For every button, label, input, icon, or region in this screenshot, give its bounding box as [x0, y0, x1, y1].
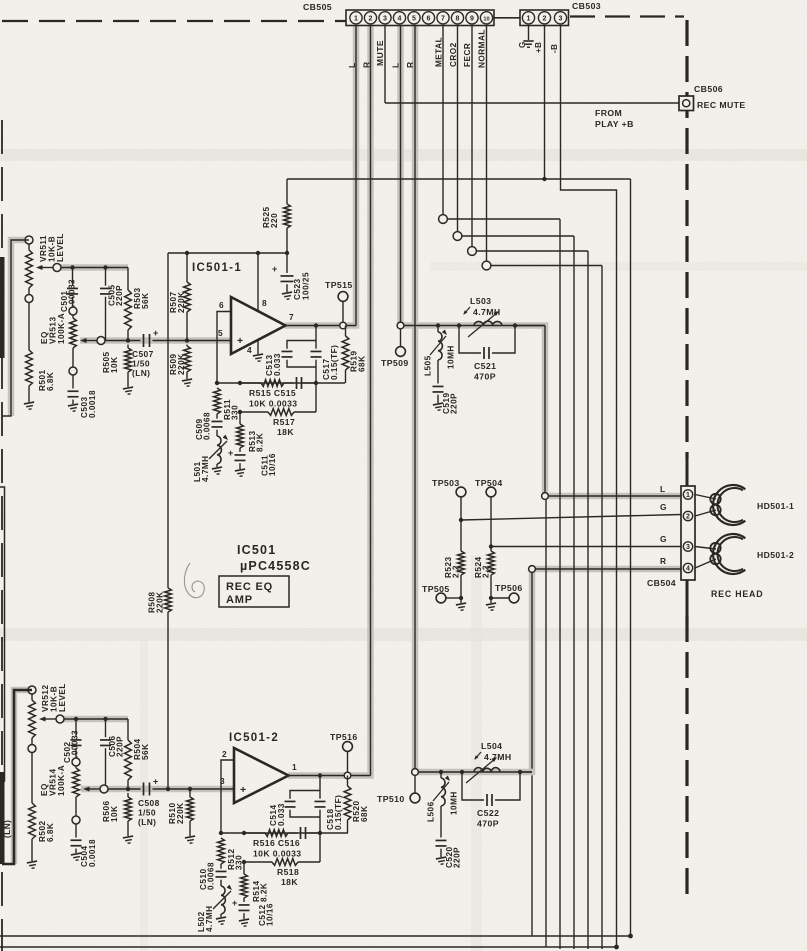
label C506 220P: [108, 735, 125, 757]
testpoint TP504: [486, 487, 496, 546]
label C514 0.033: [269, 803, 286, 826]
junction R503 bottom: [126, 338, 130, 342]
junction +B at bottom rail: [628, 934, 633, 939]
record head HD501-1: [695, 485, 745, 525]
wiper VR513: [80, 337, 105, 345]
wire CB505 pin3 MUTE: [384, 25, 386, 103]
connector CB504: [681, 486, 695, 580]
pin 1 label: [292, 762, 297, 772]
junction chainB 2: [242, 831, 246, 835]
label C521 470P: [474, 361, 496, 382]
adjacent board outline left: [0, 487, 5, 781]
wire CB503 -B: [561, 25, 617, 947]
label NORMAL pin10: [477, 29, 486, 68]
label R515 C515 10K 0.0033: [249, 388, 297, 409]
wire R head to CB504 pin4: [535, 568, 681, 570]
resistor R509: [182, 345, 193, 388]
resistor R511 chainA: [214, 388, 221, 414]
scan band artifact: [471, 555, 482, 951]
label C513 0.033: [265, 353, 282, 376]
label C508 1/50 (LN): [138, 798, 160, 827]
label C519 220P: [442, 392, 459, 414]
label CB504: [647, 578, 676, 588]
label C510 0.0068: [199, 862, 216, 890]
wire VR512 bracket: [2, 690, 32, 864]
junction C517 bottom: [314, 381, 318, 385]
label C507 1/50 (LN): [132, 349, 154, 378]
label L pin1: [347, 62, 357, 68]
bottom supply rail 2: [0, 946, 617, 948]
label -B: [550, 44, 559, 53]
resistor R506: [123, 793, 134, 844]
wire pin8 to bias rail: [257, 253, 259, 311]
label C512 10/16: [258, 903, 275, 926]
junction chainA 2: [219, 831, 223, 835]
wire CB505 pin1 L (IC501-1 output): [355, 25, 357, 326]
label L501 4.7MH: [193, 455, 210, 482]
label TP515: [325, 280, 353, 290]
capacitor C523 electrolytic: [272, 253, 294, 300]
resistor R523: [456, 520, 467, 611]
wire METAL bus vertical: [559, 219, 561, 949]
resistor R518: [244, 833, 320, 865]
capacitor C515: [297, 377, 317, 389]
label R524 2.2: [474, 556, 491, 578]
adjacent board bar lower-left: [0, 772, 5, 864]
node L head corner: [542, 493, 549, 500]
junction C506 top: [103, 717, 107, 721]
capacitor C507 electrolytic: [144, 328, 159, 347]
wire pin6 feedback: [217, 312, 231, 384]
resistor R517: [240, 383, 316, 415]
bottom supply rail 1: [0, 935, 631, 937]
wire NORMAL bus vertical: [601, 266, 603, 950]
wire line1 L: [61, 267, 128, 269]
label R508 220K: [147, 591, 164, 613]
resistor R508: [165, 588, 172, 612]
node pin5 terminal: [412, 769, 419, 776]
junction R508 bottom: [166, 787, 170, 791]
inductor L504 variable: [466, 757, 532, 783]
label L504 4.7MH: [474, 741, 511, 762]
wire CB505 pin8 CRO2: [457, 25, 459, 232]
label CB503: [572, 1, 601, 11]
testpoint TP516: [343, 742, 353, 779]
capacitor C521 bypass loop: [459, 326, 515, 360]
wire CB503 +B: [544, 25, 546, 179]
capacitor C509 chainA: [212, 414, 223, 436]
label CB506: [694, 84, 723, 94]
wire IC501-2 output: [289, 775, 371, 777]
junction C522 right: [518, 770, 522, 774]
resistor R525: [284, 179, 291, 253]
resistor R515: [240, 380, 294, 387]
capacitor C522 bypass loop: [462, 772, 520, 806]
label C503 0.0018: [80, 390, 97, 418]
resistor R501: [24, 303, 35, 411]
label TP509: [381, 358, 409, 368]
label TP516: [330, 732, 358, 742]
label 10MH: [449, 791, 458, 815]
label IC501-1: [192, 262, 242, 274]
capacitor C513 parallel loop: [282, 341, 317, 368]
board border top dashed: [2, 20, 346, 22]
wire CB505 pin7 METAL: [442, 25, 444, 215]
potentiometer VR513 EQ: [69, 307, 77, 375]
testpoint TP505: [422, 584, 463, 603]
label C505 220P: [107, 284, 124, 306]
inductor L505 variable: [430, 326, 447, 384]
label IC501: [237, 543, 276, 557]
testpoint TP506: [489, 583, 523, 603]
capacitor C504: [71, 824, 83, 861]
label R523 2.2: [444, 556, 461, 578]
junction C521 right: [513, 323, 517, 327]
callout box REC EQ AMP: [219, 576, 289, 607]
signal highlight CB505 pin5 to R head: [415, 25, 681, 772]
resistor R514 chainB: [241, 862, 248, 902]
label +B: [534, 42, 543, 53]
label REC MUTE: [697, 100, 746, 110]
scan band artifact: [430, 262, 807, 271]
label TP504: [475, 478, 503, 488]
pin 6 label: [219, 300, 224, 310]
board border right dashed lower: [685, 616, 688, 897]
label L pin4: [391, 62, 401, 68]
resistor R504: [125, 719, 132, 789]
capacitor C501: [67, 268, 78, 308]
capacitor C516: [301, 827, 321, 839]
label CB505: [303, 2, 332, 12]
label VR512 10K-B LEVEL: [41, 683, 67, 712]
junction TP503 G1: [459, 518, 463, 522]
label METAL pin7: [434, 37, 443, 67]
resistor R503: [125, 268, 132, 341]
label G: [518, 41, 527, 48]
signal highlight L output to CB505 pin1: [285, 25, 356, 326]
signal highlight R input: [14, 690, 234, 864]
wire R head line: [418, 771, 532, 773]
junction R507 R509: [185, 338, 189, 342]
label R513 8.2K: [248, 430, 265, 452]
wire CB505 pin10 NORMAL: [486, 25, 488, 261]
junction pin8 stub: [256, 251, 260, 255]
label VR511 10K-B LEVEL: [39, 233, 65, 262]
label R503 56K: [133, 287, 150, 309]
label R510 220K: [168, 802, 185, 824]
wire FECR bus vertical: [587, 251, 589, 949]
junction C505 top: [103, 265, 107, 269]
resistor R510: [185, 789, 196, 844]
resistor R502: [27, 753, 38, 870]
capacitor C503: [68, 375, 80, 412]
label C511 10/16: [260, 453, 277, 476]
wire L bus continuation: [545, 499, 547, 947]
capacitor C508 electrolytic: [144, 777, 159, 796]
board border solid at CB504: [686, 458, 689, 616]
scan band artifact: [140, 640, 148, 951]
node pin4 terminal: [397, 322, 404, 329]
node METAL open terminal: [439, 215, 560, 224]
label R514 8.2K: [252, 880, 269, 902]
junction chainA: [215, 381, 219, 385]
label C501 0.00033: [60, 279, 77, 312]
label R pin2: [362, 61, 372, 68]
wire R head up: [531, 572, 533, 768]
junction R525 C523: [285, 251, 289, 255]
wire CB505 pin2 R (IC501-2 output): [370, 25, 372, 776]
pin 5 label: [218, 328, 223, 338]
testpoint TP515: [338, 292, 348, 329]
potentiometer VR514 EQ: [72, 758, 80, 824]
node R head corner: [529, 566, 536, 573]
label TP503: [432, 478, 460, 488]
wire bias rail IC501-1: [168, 252, 287, 254]
pencil squiggle artifact: [184, 563, 204, 598]
label R506 10K: [102, 800, 119, 822]
node NORMAL open terminal: [482, 261, 602, 270]
capacitor C520: [436, 840, 448, 865]
node FECR open terminal: [468, 247, 588, 256]
label L502 4.7MH: [197, 905, 214, 932]
wire REC MUTE: [385, 102, 679, 104]
label C522 470P: [477, 808, 499, 829]
label R502 6.8K: [38, 820, 55, 842]
label R wire: [660, 556, 666, 566]
label EQ VR513 100K-A: [40, 313, 66, 344]
wire CB505 to CB503: [494, 17, 520, 19]
inductor L506 variable: [433, 772, 450, 838]
junction R507 top: [185, 251, 189, 255]
wire VR511 bracket: [2, 240, 29, 416]
resistor R520: [344, 776, 351, 834]
wire L head line: [404, 325, 545, 327]
wire CB505 pin5 R play: [414, 25, 416, 769]
junction C522 left: [460, 770, 464, 774]
capacitor C518 branch: [315, 776, 326, 834]
label C509 0.0068: [195, 412, 212, 440]
scan band artifact: [0, 149, 807, 161]
junction output feedback tap 2: [318, 773, 322, 777]
label C504 0.0018: [80, 839, 97, 867]
inductor L503 variable: [468, 311, 545, 337]
junction C502 top: [74, 717, 78, 721]
wire G2 to CB504 pin3: [491, 546, 681, 548]
wire feedback line: [217, 382, 345, 384]
junction output feedback tap: [314, 323, 318, 327]
label IC501-2: [229, 732, 279, 744]
signal highlight L input: [11, 240, 231, 416]
label R511 330: [223, 399, 240, 420]
pin 8 label: [262, 298, 267, 308]
wire +B rail horizontal: [287, 179, 631, 936]
scan band artifact: [0, 628, 807, 641]
label R518 18K: [277, 867, 299, 887]
capacitor C512 electrolytic chainB: [232, 898, 250, 927]
pin 7 label: [289, 312, 294, 322]
node CRO2 open terminal: [453, 232, 574, 241]
label R501 6.8K: [38, 369, 55, 391]
wire feedback line 2: [221, 832, 348, 834]
wire pin2 feedback: [221, 760, 234, 833]
capacitor C511 electrolytic chainB: [228, 448, 246, 477]
label R512 330: [227, 848, 244, 870]
label C523 100/25: [293, 272, 311, 300]
inductor L501 variable: [209, 435, 228, 475]
label EQ VR514 100K-A: [40, 765, 66, 796]
label R507 220K: [169, 291, 186, 313]
resistor R519: [342, 326, 349, 384]
label CRO2 pin8: [449, 42, 458, 67]
label L wire: [660, 484, 666, 494]
op-amp IC501-2: [234, 748, 289, 803]
resistor R512 chainA: [218, 838, 225, 864]
wire pin4 to ground: [253, 339, 264, 362]
label 10MH: [446, 345, 455, 369]
junction R518 left: [242, 860, 246, 864]
pin 4 label: [247, 345, 252, 355]
connector CB505: [346, 10, 494, 26]
wiper VR511: [36, 264, 61, 272]
junction C501 top: [70, 265, 74, 269]
potentiometer VR511: [25, 236, 33, 303]
resistor R505: [123, 345, 134, 396]
junction +B rail: [542, 177, 546, 181]
label G wire: [660, 502, 667, 512]
resistor R507: [184, 253, 191, 341]
potentiometer VR512: [28, 686, 36, 753]
record head HD501-2: [695, 534, 745, 574]
label L503 4.7MH: [463, 296, 500, 317]
signal highlight R output to CB505 pin2: [288, 25, 371, 776]
capacitor C506: [100, 719, 111, 789]
label L505: [423, 355, 432, 376]
wire G1 to CB504 pin2: [461, 515, 681, 521]
label R509 220K: [169, 353, 186, 375]
label TP510: [377, 794, 405, 804]
junction L505 top: [436, 323, 440, 327]
label (LN) edge fragment: [3, 820, 12, 838]
label L506: [426, 801, 435, 822]
label R505 10K: [102, 351, 119, 373]
wire L head to CB504 pin1: [548, 495, 681, 497]
capacitor C505: [100, 268, 111, 341]
label R519 68K: [349, 350, 366, 372]
pin 2 label: [222, 749, 227, 759]
label C520 220P: [445, 846, 462, 868]
label C518 0.15(TF): [326, 795, 343, 830]
wiper VR512: [39, 715, 64, 723]
label G wire 2: [660, 534, 667, 544]
capacitor C517 branch: [311, 326, 322, 384]
junction -B at bottom rail: [614, 945, 619, 950]
label FROM PLAY +B: [595, 108, 634, 129]
label HD501-1: [757, 501, 794, 511]
label R520 68K: [352, 800, 369, 822]
label HD501-2: [757, 550, 794, 560]
op-amp IC501-1: [231, 297, 286, 354]
label R517 18K: [273, 417, 295, 437]
junction TP504 G2: [489, 544, 493, 548]
wire CRO2 bus vertical: [573, 236, 575, 949]
pin 3 label: [220, 776, 225, 786]
junction R517 left: [238, 410, 242, 414]
resistor R513 chainB: [237, 412, 244, 452]
resistor R516: [244, 830, 298, 837]
label R504 56K: [133, 738, 150, 760]
label R516 C516 10K 0.0033: [253, 838, 301, 859]
testpoint TP503: [456, 487, 466, 520]
label R525 220: [262, 206, 279, 228]
label C502 0.00033: [63, 730, 80, 763]
wire line1 R: [64, 718, 128, 720]
capacitor C519: [433, 386, 445, 411]
wire R508 vertical: [167, 253, 169, 789]
board border right dashed: [685, 20, 688, 458]
wire R bus continuation: [531, 775, 533, 936]
capacitor C510 chainA: [216, 864, 227, 886]
wire CB505 pin9 FECR: [471, 25, 473, 247]
wire line2 R to IC501-2: [108, 788, 234, 790]
capacitor C514 parallel loop: [285, 791, 321, 818]
label FECR pin9: [463, 43, 472, 67]
junction R504 bottom: [126, 787, 130, 791]
label uPC4558C: [240, 559, 311, 573]
capacitor C502: [71, 719, 82, 758]
label C517 0.15(TF): [322, 345, 339, 380]
junction R510 top: [188, 787, 192, 791]
wire L head down: [544, 326, 546, 493]
junction C521 left: [457, 323, 461, 327]
resistor R524: [486, 547, 497, 612]
board border left dashed: [1, 120, 3, 951]
junction C518 bottom: [318, 831, 322, 835]
board border top-right dashed: [570, 15, 684, 17]
wire CB505 pin4 L play: [400, 25, 402, 322]
connector CB503: [520, 10, 569, 26]
label R pin5: [405, 61, 415, 68]
connector CB506: [679, 96, 694, 111]
wire CB503 G + ground: [523, 25, 533, 47]
adjacent board bar upper-left: [0, 257, 5, 358]
inductor L502 variable: [213, 885, 232, 925]
label REC HEAD: [711, 589, 763, 599]
signal highlight CB505 pin4 to L head: [401, 25, 682, 496]
label MUTE pin3: [375, 40, 385, 66]
wire line2 L to IC501-1: [105, 340, 231, 342]
testpoint TP509: [396, 329, 406, 357]
junction L506 top: [439, 770, 443, 774]
junction chainB: [238, 381, 242, 385]
testpoint TP510: [410, 775, 420, 802]
wiper VR514: [83, 785, 108, 793]
wire IC501-1 output: [286, 325, 357, 327]
